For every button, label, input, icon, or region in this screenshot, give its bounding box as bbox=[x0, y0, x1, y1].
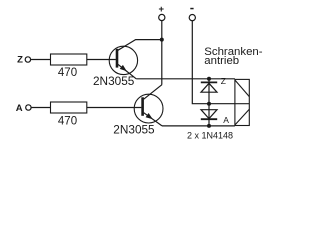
junction plus rail and Q1 collector bbox=[160, 38, 164, 42]
wire diode D2 to bottom wire bbox=[208, 104, 210, 126]
terminal minus circle bbox=[189, 15, 195, 21]
diode D1 cathode bar bbox=[201, 81, 217, 83]
transistor Q1 base bar bbox=[116, 49, 119, 68]
svg-text:antrieb: antrieb bbox=[204, 55, 239, 67]
transistor Q1 circle bbox=[109, 46, 137, 74]
power label minus bbox=[190, 8, 193, 10]
wire Z terminal to R1 bbox=[31, 59, 51, 61]
transistor Q2 collector lead bbox=[144, 85, 162, 100]
wire Q2 emitter to coil A bbox=[162, 125, 235, 127]
wire R1 to Q1 base bbox=[87, 59, 116, 61]
wire minus rail to coil common bbox=[192, 21, 235, 104]
svg-text:Z: Z bbox=[17, 54, 23, 65]
transistor Q2 base bar bbox=[141, 97, 144, 116]
svg-text:470: 470 bbox=[58, 116, 77, 128]
actuator K1 coil A diagonal bbox=[235, 109, 249, 125]
resistor R2 body bbox=[51, 102, 87, 113]
transistor Q1 collector lead bbox=[118, 40, 162, 51]
terminal A input circle bbox=[26, 105, 31, 110]
junction diodes midpoint at minus wire bbox=[207, 102, 211, 106]
svg-text:A: A bbox=[16, 103, 23, 114]
wire plus rail bbox=[161, 21, 163, 85]
svg-text:A: A bbox=[223, 115, 229, 125]
svg-text:Z: Z bbox=[221, 76, 226, 86]
diode D2 triangle bbox=[201, 110, 217, 119]
wire A terminal to R2 bbox=[31, 107, 50, 109]
transistor Q2 circle bbox=[134, 94, 163, 123]
resistor R1 body bbox=[51, 54, 87, 65]
wire diode D1 anode to midpoint bbox=[208, 79, 210, 104]
actuator K1 outline bbox=[235, 79, 249, 125]
transistor Q1 emitter lead bbox=[118, 64, 136, 79]
svg-text:2N3055: 2N3055 bbox=[93, 74, 135, 88]
actuator K1 coil Z diagonal bbox=[235, 80, 249, 97]
junction diode D1 cathode to coil Z wire bbox=[207, 77, 211, 81]
actuator K1 middle divider bbox=[235, 103, 249, 105]
wire R2 to Q2 base bbox=[87, 107, 142, 109]
svg-text:2 x 1N4148: 2 x 1N4148 bbox=[187, 130, 233, 140]
svg-text:2N3055: 2N3055 bbox=[113, 123, 155, 137]
transistor Q2 emitter lead bbox=[144, 113, 162, 126]
wire Q1 emitter to coil Z bbox=[136, 78, 235, 80]
svg-text:470: 470 bbox=[58, 67, 77, 79]
terminal plus circle bbox=[159, 14, 165, 20]
diode D1 triangle bbox=[201, 83, 217, 92]
transistor Q2 emitter arrow bbox=[146, 113, 153, 119]
terminal Z input circle bbox=[25, 57, 30, 62]
svg-text:+: + bbox=[159, 4, 165, 15]
junction diode D2 cathode to coil A wire bbox=[207, 124, 211, 128]
diode D2 cathode bar bbox=[201, 118, 217, 120]
transistor Q1 emitter arrow bbox=[120, 65, 127, 71]
